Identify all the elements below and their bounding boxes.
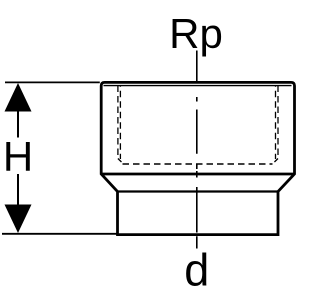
svg-text:H: H (3, 133, 33, 180)
svg-text:d: d (184, 245, 209, 296)
svg-text:Rp: Rp (169, 10, 223, 57)
